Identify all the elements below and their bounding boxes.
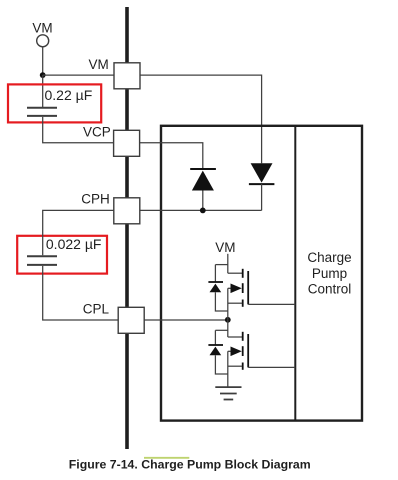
diode D1 (up) bar [190,168,216,170]
terminal VM circle [37,35,49,47]
svg-text:0.022 µF: 0.022 µF [46,236,102,252]
diode D4 triangle [210,347,222,356]
diode D2 (down) bar [249,183,275,185]
pin box VM [114,63,140,89]
wire midpoint to Q2 drain [227,320,229,337]
wire CPH pin to C2 top [43,210,114,255]
capacitor C2 0.022uF plates [27,255,57,257]
pin box CPH [114,198,140,224]
wire C1 bottom to VCP pin [43,117,114,143]
wire VM node down to C1 [42,75,44,107]
svg-text:Figure 7-14. Charge Pump Block: Figure 7-14. Charge Pump Block Diagram [69,458,311,472]
highlight red box around C1 [8,84,101,122]
junction dot CPL/FET midpoint [225,317,231,323]
transistor Q1 gate bar [247,271,249,304]
diode D3 bar [208,281,223,283]
wire CPL pin into block to FET midpoint [144,319,228,321]
junction dot D1/CPH [200,208,206,214]
wire body diode D3 branch upper [214,265,216,282]
svg-text:VCP: VCP [83,124,111,139]
wire VM stub to Q1 drain [227,254,229,273]
svg-text:VM: VM [89,57,109,72]
annotation teal overline [144,457,189,459]
wire Q1 source rail to midpoint [227,288,229,320]
junction dot VM node [40,72,46,78]
pin box VCP [114,130,140,156]
svg-text:Pump: Pump [312,266,347,281]
diode D3 triangle [210,284,222,293]
wire VM node to VM pin [43,74,114,76]
wire Q1 split to body diode branch [215,264,227,266]
transistor Q1 body stub and arrow [228,287,232,289]
wire VM terminal to junction [42,47,44,75]
transistor Q1 source stub [228,302,242,304]
block divider line [294,126,296,421]
highlight red box around C2 [17,236,107,274]
diode D4 bar [208,344,223,346]
wire Q2 gate lead to control [248,366,295,368]
wire C2 bottom to CPL pin [43,266,119,320]
svg-text:CPL: CPL [83,302,110,317]
wire body diode D4 branch lower [215,355,227,374]
svg-text:0.22 µF: 0.22 µF [45,87,93,103]
transistor Q2 channel dashes [242,332,244,341]
svg-text:Charge: Charge [307,250,351,265]
transistor Q2 source stub [228,365,242,367]
transistor Q2 gate bar [247,334,249,367]
transistor Q1 channel dashes [242,269,244,278]
diode D2 (down) triangle [251,163,273,182]
pin box CPL [118,307,144,333]
svg-text:CPH: CPH [81,192,110,207]
wire CPH rail into block [140,209,262,211]
transistor Q2 body stub and arrow [228,350,232,352]
ground symbol [215,386,241,388]
wire VCP pin into block to D1 [140,143,203,169]
wire Q2 source rail to ground [227,351,229,387]
transistor Q1 drain stub [228,272,242,274]
svg-text:VM: VM [32,20,52,35]
wire body diode D4 branch upper [214,330,216,345]
block charge pump outline [161,126,362,421]
wire D1 to CPH rail [202,191,204,211]
wire VM pin to diode D2 top [140,75,262,163]
svg-text:Control: Control [308,281,352,296]
wire Q2 split to body diode branch [215,329,227,331]
diode D1 (up) triangle [192,171,214,191]
svg-text:VM: VM [215,240,235,255]
bus thick vertical line [125,7,129,449]
transistor Q2 drain stub [228,336,242,338]
wire body diode D3 branch lower [215,292,227,311]
wire D2 bottom down [261,184,263,210]
wire Q1 gate lead to control [248,303,295,305]
capacitor C1 0.22uF plates [27,107,57,109]
